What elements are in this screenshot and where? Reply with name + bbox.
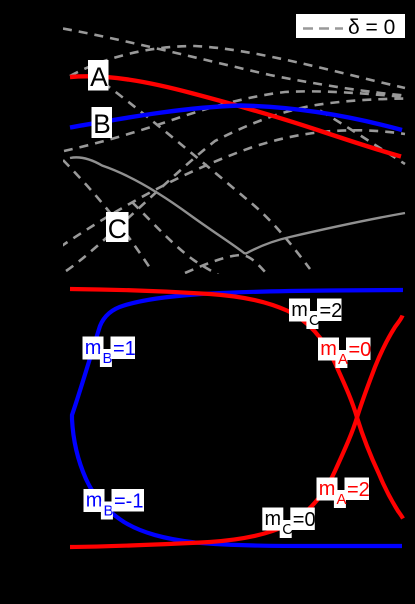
svg-text:m: m xyxy=(291,299,308,321)
legend box xyxy=(296,14,405,39)
curve mA=0 branch (red, bottom panel) xyxy=(70,289,403,519)
label mB=-1 xyxy=(84,489,145,520)
curve mB (blue, bottom panel) xyxy=(72,290,403,546)
svg-text:m: m xyxy=(85,337,102,359)
dashed arch curve xyxy=(185,255,266,273)
svg-text:C: C xyxy=(108,214,127,244)
legend dashed sample xyxy=(303,27,343,30)
label B xyxy=(92,107,113,139)
curve C (gray solid) xyxy=(70,157,405,253)
curve A (red) xyxy=(70,76,401,156)
dashed curve d2 xyxy=(70,46,405,88)
svg-text:=-1: =-1 xyxy=(114,491,143,513)
curve B (blue) xyxy=(70,106,402,131)
dashed curve d1 xyxy=(63,29,405,96)
curve mA=2 branch (red, bottom panel) xyxy=(70,316,403,548)
label mB=1 xyxy=(83,337,136,368)
label A xyxy=(88,60,109,92)
dashed curve d9 xyxy=(320,111,405,165)
svg-text:m: m xyxy=(320,338,337,360)
svg-text:A: A xyxy=(90,62,108,92)
dashed curve d4 xyxy=(90,73,310,269)
label mA=2 xyxy=(317,478,370,509)
svg-text:=0: =0 xyxy=(349,339,372,361)
svg-text:=2: =2 xyxy=(320,300,343,322)
label mC=2 xyxy=(289,299,342,330)
svg-text:=0: =0 xyxy=(293,509,316,531)
svg-text:B: B xyxy=(93,109,111,139)
dashed curve d8 xyxy=(60,130,405,247)
dashed curve d6 xyxy=(63,160,152,271)
dashed curve d3 xyxy=(64,91,405,151)
svg-text:m: m xyxy=(265,508,282,530)
dashed curve d5 xyxy=(132,202,228,280)
dashed curve d7 xyxy=(66,99,405,272)
svg-text:m: m xyxy=(319,478,336,500)
label C xyxy=(106,212,129,244)
label mC=0 xyxy=(262,508,315,539)
svg-text:δ = 0: δ = 0 xyxy=(348,16,395,39)
svg-text:=2: =2 xyxy=(347,479,370,501)
svg-text:m: m xyxy=(86,490,103,512)
label mA=0 xyxy=(318,338,371,369)
svg-text:=1: =1 xyxy=(113,338,136,360)
